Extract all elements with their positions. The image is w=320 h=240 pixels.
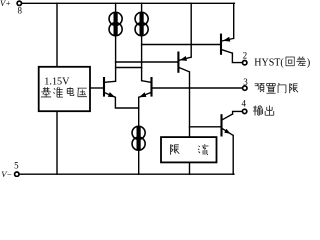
transistor Q4 output NPN — [222, 114, 234, 137]
wire CS1 vertical — [115, 3, 117, 81]
current source CS1 — [109, 12, 122, 36]
svg-text:8: 8 — [18, 6, 23, 16]
pin 4 circle — [242, 109, 246, 113]
wire Q5 emitter vertical — [233, 3, 235, 38]
svg-text:V−: V− — [1, 169, 12, 177]
pin 3 circle — [243, 86, 247, 90]
reference box 1.15V — [39, 67, 90, 111]
label 预置门限 — [255, 83, 298, 93]
wire Q1 base from box — [90, 87, 104, 89]
pin 2 circle — [243, 61, 247, 65]
svg-text:5: 5 — [14, 160, 19, 170]
current limit box — [161, 137, 217, 162]
wire V+ rail — [22, 2, 234, 4]
wire Q5 base from CS2 — [142, 44, 221, 46]
wire Q4 emitter to V- rail — [232, 135, 234, 174]
label 回差 — [286, 57, 306, 66]
wire CS3 vertical — [138, 108, 140, 174]
transistor Q1 left diff NPN — [104, 77, 116, 97]
wire reference box bottom to V- rail — [56, 111, 58, 174]
wire Q3 base from CS1 — [116, 61, 179, 63]
transistor Q3 PNP — [178, 52, 191, 73]
terminal V- pin 5 — [15, 172, 19, 176]
wire pin3 line from Q2 base — [152, 87, 243, 89]
svg-text:3: 3 — [243, 77, 248, 87]
wire pin4 lead — [233, 111, 243, 114]
label 限流 — [171, 144, 209, 154]
wire pin2 lead — [232, 53, 242, 63]
label 基准电压 — [41, 87, 87, 97]
label 输出 — [253, 106, 274, 116]
wire mirror bridge — [116, 67, 142, 69]
wire rail to reference box top — [56, 3, 58, 67]
wire diff emitter rail — [115, 97, 138, 108]
svg-text:1.15V: 1.15V — [44, 77, 70, 88]
svg-text:): ) — [307, 57, 310, 68]
svg-text:2: 2 — [243, 51, 248, 61]
wire V- rail — [20, 173, 234, 175]
current source CS2 — [135, 12, 148, 36]
wire CS2 vertical — [141, 3, 143, 80]
wire Q3 collector vertical — [189, 72, 191, 137]
transistor Q2 right diff NPN — [139, 77, 152, 97]
terminal V+ pin 8 — [17, 1, 21, 5]
svg-text:HYST(: HYST( — [254, 57, 284, 68]
wire limit box bottom to V- rail — [189, 162, 191, 174]
svg-text:V+: V+ — [0, 0, 11, 8]
svg-text:4: 4 — [241, 99, 246, 109]
wire Q3 emitter vertical — [190, 3, 192, 57]
transistor Q5 PNP HYST — [221, 34, 234, 55]
wire Q4 base branch — [190, 126, 222, 128]
current source CS3 — [132, 126, 145, 150]
